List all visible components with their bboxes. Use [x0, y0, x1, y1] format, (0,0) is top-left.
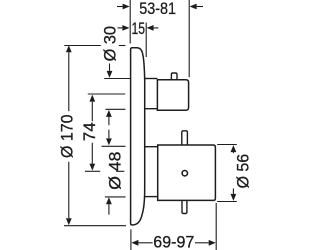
dim 69-97 right arrow	[195, 242, 209, 244]
dim 74 lower extension line (box axis)	[85, 170, 100, 172]
svg-text:Ø 56: Ø 56	[234, 154, 253, 189]
svg-text:74: 74	[80, 122, 99, 141]
svg-text:53-81: 53-81	[139, 0, 176, 18]
dim 74 upper (up) arrow	[89, 95, 95, 102]
dim Ø56 line with arrows	[231, 145, 237, 152]
dim 69-97 left extension line	[130, 229, 132, 250]
svg-text:15: 15	[132, 19, 146, 38]
svg-text:Ø 30: Ø 30	[101, 26, 120, 61]
dim Ø56 bottom extension line	[217, 201, 237, 203]
svg-text:69-97: 69-97	[153, 232, 194, 250]
dim Ø30 upper (down) arrow	[109, 63, 111, 71]
dim Ø48 lower extension line	[105, 196, 126, 198]
handle sleeve (upper neck) bottom edge	[145, 108, 158, 110]
dim 15 right arrow	[154, 27, 159, 29]
svg-text:Ø 48: Ø 48	[106, 152, 125, 190]
box bottom tab	[182, 200, 187, 213]
dim 74 lower (down) arrow	[91, 143, 93, 164]
dim Ø170 bottom extension line	[64, 225, 126, 227]
lower sleeve (Ø48) top edge	[145, 146, 158, 148]
dim Ø48 upper (down) arrow	[108, 130, 110, 139]
dim Ø170 line with arrows	[66, 45, 72, 52]
dim 53-81 left arrow	[117, 6, 123, 8]
handle sleeve (upper neck) top edge	[145, 78, 158, 80]
dim Ø48 lower (up) arrow	[106, 197, 112, 204]
svg-text:Ø 170: Ø 170	[57, 115, 76, 159]
knob top button bump	[171, 73, 177, 80]
shut-off handle box	[158, 145, 216, 200]
dim Ø56 top extension line	[217, 144, 237, 146]
dim 69-97 right extension line	[215, 203, 217, 250]
dim 53-81 right arrow	[196, 6, 203, 8]
thermostat knob	[157, 80, 188, 111]
dim Ø30 upper extension line	[104, 78, 130, 80]
dim 69-97 left arrow	[131, 240, 138, 246]
lower sleeve (Ø48) bottom edge	[145, 196, 158, 198]
dim 15 right extension line	[145, 23, 147, 58]
dim 53-81 right extension line	[188, 0, 190, 77]
dim Ø30 lower (up) arrow	[108, 117, 110, 126]
box top tab	[182, 131, 188, 145]
dim 53-81 left extension line	[129, 0, 131, 44]
dim 74 upper extension line (handle axis)	[88, 93, 125, 95]
escutcheon plate side view	[131, 48, 145, 225]
dim Ø30 lower extension line	[105, 108, 125, 110]
dim Ø170 top extension line	[64, 45, 101, 47]
screw circle on box	[182, 171, 187, 176]
dim Ø48 upper extension line	[102, 145, 126, 147]
dim 15 left arrow	[117, 27, 122, 29]
